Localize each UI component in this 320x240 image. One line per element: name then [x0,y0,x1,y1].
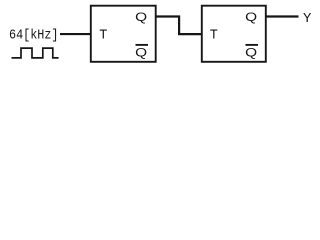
svg-text:64[kHz]: 64[kHz] [9,27,59,43]
flip-flop U2 box [202,6,266,62]
wire: Q of U2 to output Y [265,15,299,17]
svg-text:Q: Q [245,10,257,24]
svg-text:T: T [99,28,107,43]
svg-text:Q: Q [135,46,147,60]
flip-flop U1 box [91,6,156,62]
pin label Q-bar (U2) [245,45,258,60]
wire: Q of U1 to T of U2 (right, down, right) [155,17,202,35]
svg-text:Y: Y [303,11,312,27]
wire: clock input to T of U1 [60,33,91,35]
svg-text:T: T [210,28,218,43]
pin label Q-bar (U1) [135,45,148,60]
svg-text:Q: Q [245,46,257,60]
clock waveform symbol [12,48,59,58]
svg-text:Q: Q [135,10,147,24]
